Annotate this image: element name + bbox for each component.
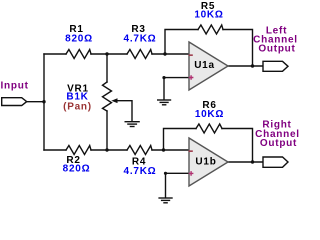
- ground (U1b + input): [158, 198, 172, 203]
- junction VR1 top node: [105, 52, 108, 55]
- wire input to bus: [27, 101, 44, 103]
- svg-text:4.7KΩ: 4.7KΩ: [124, 166, 157, 177]
- wiper arrowhead: [111, 98, 117, 103]
- op-amp U1b plus pin label: [189, 171, 194, 176]
- junction R5 feedback node: [163, 52, 166, 55]
- svg-text:(Pan): (Pan): [63, 101, 92, 112]
- resistor R6: [196, 124, 222, 133]
- left output port connector: [263, 61, 288, 71]
- wire R5 feedback loop: [165, 30, 198, 55]
- svg-text:U1a: U1a: [194, 60, 215, 71]
- svg-text:Output: Output: [258, 44, 295, 55]
- op-amp U1a plus pin label: [189, 75, 194, 80]
- wire left input bus: [43, 54, 45, 150]
- ground (U1a + input): [157, 100, 171, 105]
- junction U1a output node: [251, 64, 254, 67]
- wire bottom rail left segment: [44, 149, 66, 151]
- wire VR1 top lead: [106, 54, 108, 82]
- op-amp U1a minus pin label: [189, 54, 193, 56]
- wire U1b output: [228, 161, 263, 163]
- wire U1a output: [228, 65, 263, 67]
- svg-text:Input: Input: [1, 80, 29, 91]
- resistor R4: [127, 146, 152, 155]
- resistor R5: [198, 25, 223, 34]
- resistor R2: [66, 146, 91, 155]
- op-amp U1b minus pin label: [189, 150, 193, 152]
- svg-text:10KΩ: 10KΩ: [194, 9, 223, 20]
- wire R6 feedback loop: [164, 129, 197, 151]
- wire VR1 wiper: [116, 101, 132, 121]
- junction input node: [42, 100, 45, 103]
- resistor R3: [127, 50, 152, 59]
- junction R6 feedback node: [162, 148, 165, 151]
- svg-text:U1b: U1b: [195, 157, 216, 168]
- wire top rail mid segment: [91, 53, 127, 55]
- wire bottom rail right segment: [152, 149, 189, 151]
- input port connector: [2, 98, 27, 106]
- junction VR1 bottom node: [105, 148, 108, 151]
- wire R6 to output node: [222, 129, 253, 163]
- wire U1b noninverting input: [166, 173, 190, 197]
- svg-text:4.7KΩ: 4.7KΩ: [124, 34, 157, 45]
- junction U1b plus corner: [164, 172, 167, 175]
- svg-text:Output: Output: [260, 138, 297, 149]
- right output port connector: [263, 157, 288, 167]
- wire U1a noninverting input: [164, 78, 189, 100]
- wire VR1 bottom lead: [106, 111, 108, 150]
- svg-text:820Ω: 820Ω: [65, 34, 93, 45]
- potentiometer VR1: [103, 82, 112, 111]
- junction U1b output node: [251, 160, 254, 163]
- junction U1a plus corner: [162, 76, 165, 79]
- wire top rail right segment: [152, 53, 189, 55]
- op-amp U1b: [189, 138, 228, 186]
- wire R5 to output node: [223, 30, 253, 67]
- wire top rail left segment: [44, 53, 66, 55]
- wire bottom rail mid segment: [91, 149, 127, 151]
- op-amp U1a: [189, 42, 228, 90]
- svg-text:820Ω: 820Ω: [63, 164, 91, 175]
- ground (VR1 wiper): [125, 122, 140, 127]
- resistor R1: [66, 50, 91, 59]
- svg-text:10KΩ: 10KΩ: [195, 109, 224, 120]
